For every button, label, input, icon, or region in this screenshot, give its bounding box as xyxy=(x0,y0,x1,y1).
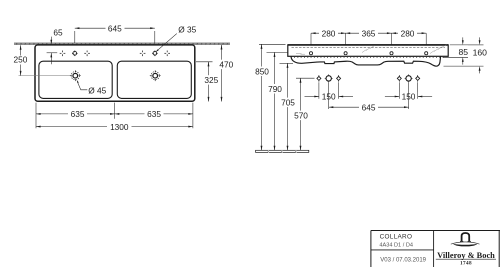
svg-text:Villeroy & Boch: Villeroy & Boch xyxy=(437,251,495,260)
drain left (Ø45) xyxy=(70,70,81,81)
mounting holes in rim band xyxy=(309,52,427,55)
fixing bolt group right xyxy=(397,74,419,82)
svg-text:280: 280 xyxy=(401,28,415,38)
svg-text:635: 635 xyxy=(71,109,85,119)
dimension 85 rim height xyxy=(443,37,468,64)
drain right xyxy=(150,70,161,81)
faucet hole marks right bowl (Ø35 centre) xyxy=(140,51,146,57)
svg-text:705: 705 xyxy=(281,98,295,108)
dimension 470 xyxy=(217,45,236,102)
label Ø 45 + leader xyxy=(77,80,107,96)
svg-text:850: 850 xyxy=(255,66,269,76)
label Ø 35 + leader xyxy=(156,24,197,52)
svg-text:Ø 45: Ø 45 xyxy=(88,85,106,95)
svg-text:645: 645 xyxy=(362,102,376,112)
svg-text:250: 250 xyxy=(14,55,28,65)
dimension 570 xyxy=(293,78,315,150)
right bowl inner outline xyxy=(117,61,191,98)
front view rim band xyxy=(288,45,448,56)
svg-text:1748: 1748 xyxy=(460,261,472,267)
dimension 250 xyxy=(13,45,29,75)
apron outline (front) xyxy=(291,56,441,66)
svg-text:280: 280 xyxy=(322,28,336,38)
faucet hole marks left bowl xyxy=(60,51,66,57)
title block frame xyxy=(371,231,500,267)
svg-text:COLLARO: COLLARO xyxy=(380,233,413,240)
fixing bolt group left xyxy=(317,74,341,82)
dimension 790 xyxy=(267,52,288,150)
dimension 280 / 365 / 280 (hanger holes) xyxy=(311,28,426,44)
svg-text:85: 85 xyxy=(459,47,469,57)
dimension 65 xyxy=(47,27,63,64)
dimension 1300 xyxy=(36,122,193,132)
Villeroy & Boch logo xyxy=(436,233,496,267)
svg-text:365: 365 xyxy=(362,28,376,38)
svg-text:1300: 1300 xyxy=(110,122,129,132)
dimension 705 xyxy=(280,63,297,150)
dimension 150 left xyxy=(305,82,354,102)
dimension 645 faucet centres xyxy=(75,23,155,43)
dimension 150 right xyxy=(385,82,432,102)
svg-text:325: 325 xyxy=(204,75,218,85)
washbasin outer outline (plan view 1300x470) xyxy=(35,45,195,101)
left bowl inner outline xyxy=(39,61,112,98)
dimension 645 bolt centres xyxy=(329,83,409,113)
svg-text:V03 / 07.03.2019: V03 / 07.03.2019 xyxy=(380,257,426,263)
svg-text:790: 790 xyxy=(268,84,282,94)
dimension 160 apron depth xyxy=(444,37,488,73)
svg-text:4A34 D1 / D4: 4A34 D1 / D4 xyxy=(379,243,413,249)
svg-text:645: 645 xyxy=(108,23,122,33)
floor line xyxy=(256,150,309,153)
dimension 635 left xyxy=(36,103,193,129)
svg-text:470: 470 xyxy=(219,59,233,69)
svg-text:Ø 35: Ø 35 xyxy=(178,24,196,34)
svg-text:570: 570 xyxy=(294,111,308,121)
svg-text:635: 635 xyxy=(147,109,161,119)
dimension 635 right xyxy=(115,109,193,119)
dimension 325 xyxy=(196,62,219,102)
dimension 850 xyxy=(254,44,286,150)
svg-text:65: 65 xyxy=(53,27,63,37)
drain centreline xyxy=(19,75,72,77)
hidden edge (dashed) in rim band xyxy=(291,48,445,58)
surface hatch marks xyxy=(296,45,447,55)
svg-text:160: 160 xyxy=(473,47,488,57)
